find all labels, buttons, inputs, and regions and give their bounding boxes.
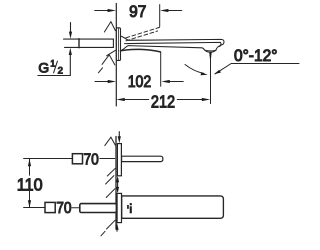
svg-text:110: 110 — [17, 174, 43, 194]
handle lever — [122, 156, 163, 161]
extension bar for 97 dim — [159, 5, 161, 27]
G 1/2 text — [38, 58, 63, 76]
swivel arc with arrowhead — [185, 65, 208, 76]
wall hatch marks (bottom view) — [101, 137, 115, 236]
spout escutcheon flange — [117, 193, 121, 222]
wall section line (top side view) — [115, 4, 117, 106]
handle escutcheon flange — [117, 144, 121, 176]
dimension 102 — [95, 80, 183, 83]
wall section line (bottom front view) — [115, 137, 117, 229]
water stream / 212 extension line — [209, 52, 212, 103]
down arrow at handle flange top — [118, 132, 121, 144]
svg-text:97: 97 — [129, 3, 146, 21]
escutcheon flange (top side view) — [116, 28, 120, 61]
dimension 212 — [116, 98, 210, 101]
wall hatch marks (top view) — [98, 22, 115, 73]
between-flanges arrows (70 squares) — [116, 176, 119, 193]
mixer markings inside spout — [127, 203, 132, 213]
label square 70 (handle) — [72, 154, 114, 164]
0-12 deg leader line with arrowhead — [214, 64, 299, 75]
concealed body box behind wall — [80, 204, 117, 213]
svg-text:70: 70 — [56, 200, 72, 217]
svg-text:1: 1 — [50, 58, 55, 68]
inner front top edge — [125, 42, 221, 46]
spout body side view outline — [120, 36, 224, 52]
svg-text:G: G — [38, 61, 49, 76]
svg-text:102: 102 — [128, 72, 152, 91]
svg-text:0°-12°: 0°-12° — [234, 47, 277, 65]
svg-text:212: 212 — [151, 91, 175, 111]
svg-text:70: 70 — [84, 151, 100, 168]
pipe diameter arrow (down, above pipe) — [69, 23, 72, 39]
svg-text:2: 2 — [58, 65, 63, 76]
up arrow at spout flange bottom — [115, 223, 118, 232]
supply pipe G1/2 nipple — [64, 39, 114, 48]
spout outline: neck, top edge, tip cap, aerator bump, bottom edge — [120, 36, 224, 52]
dashed tilted-spout lines (12 deg) — [126, 27, 159, 40]
dimension 97 — [95, 9, 182, 12]
label square 70 (spout) — [45, 202, 80, 212]
G 1/2 label leader with up arrow — [38, 48, 72, 76]
pipe joint line — [78, 39, 80, 48]
aerator inner line — [204, 49, 216, 52]
underside body swoosh — [120, 49, 160, 52]
dimension 110 — [24, 159, 73, 208]
extension line at spout body end (x=160) — [160, 52, 162, 86]
spout front view box — [122, 196, 224, 218]
